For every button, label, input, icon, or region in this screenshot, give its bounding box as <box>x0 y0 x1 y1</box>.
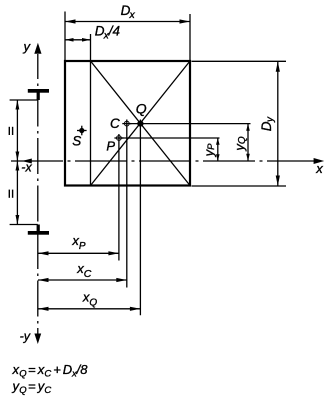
diagonal from top-right to (Dx/4,bottom) <box>91 61 191 186</box>
upper tick extension line <box>10 99 38 101</box>
Dx/4 right arrow <box>82 38 91 42</box>
svg-text:C: C <box>110 116 120 131</box>
Dy bottom extension line <box>192 185 287 187</box>
point S marker <box>77 126 87 136</box>
xQ dimension line <box>38 308 140 310</box>
svg-text:Dx/4: Dx/4 <box>95 23 120 41</box>
equal span arrow down to axis <box>16 152 20 162</box>
y axis centerline <box>37 54 39 334</box>
svg-text:xC: xC <box>76 261 92 280</box>
equal span arrow up at top <box>16 100 20 110</box>
svg-text:x: x <box>315 161 323 176</box>
diagonal from (Dx/4,top) to bottom-right <box>91 61 191 186</box>
xQ left arrow <box>38 307 49 311</box>
lower tick stub <box>37 225 40 235</box>
C vertical extension line <box>126 120 128 288</box>
y axis arrowhead <box>34 43 41 54</box>
Dy top extension line <box>192 60 287 62</box>
svg-text:Dy: Dy <box>259 116 276 131</box>
Dy bottom arrow <box>276 176 280 187</box>
xC left arrow <box>38 278 49 282</box>
Dx right extension line <box>189 14 191 60</box>
negative y arrowhead <box>34 334 41 345</box>
Dx right arrow <box>180 19 191 23</box>
Dx/4 left arrow <box>65 38 74 42</box>
svg-text:S: S <box>72 133 81 148</box>
P vertical extension line <box>118 134 120 261</box>
Dx/4 dimension line <box>65 39 91 41</box>
yQ top arrow <box>246 124 250 131</box>
P level line <box>119 137 220 139</box>
square outline <box>65 61 190 186</box>
yP bottom arrow <box>216 154 220 161</box>
svg-text:xQ=xC+Dx/8: xQ=xC+Dx/8 <box>12 362 89 379</box>
svg-text:yQ: yQ <box>232 136 248 152</box>
x axis centerline <box>11 160 315 162</box>
lower equality mark II <box>9 190 14 198</box>
Dy top arrow <box>276 61 280 72</box>
upper axis tick bar <box>28 89 49 93</box>
point P marker <box>114 136 123 141</box>
yP top arrow <box>216 138 220 145</box>
upper tick stub <box>37 89 40 100</box>
Q vertical extension line <box>139 120 141 316</box>
xC right arrow <box>116 278 127 282</box>
xP dimension line <box>38 252 119 254</box>
xP left arrow <box>38 251 49 255</box>
svg-text:yQ=yC: yQ=yC <box>12 379 52 396</box>
x axis arrowhead <box>314 158 325 164</box>
svg-text:-x: -x <box>21 161 32 175</box>
xP right arrow <box>108 251 119 255</box>
svg-text:y: y <box>23 39 32 54</box>
upper equality mark II <box>9 127 14 135</box>
svg-text:xQ: xQ <box>82 290 98 309</box>
equal spans dimension line <box>16 100 18 225</box>
xQ right arrow <box>130 307 141 311</box>
svg-text:xP: xP <box>71 233 86 252</box>
equal span arrow down at bottom <box>16 215 20 225</box>
lower tick extension line <box>10 224 38 226</box>
svg-text:yP: yP <box>201 143 217 158</box>
yQ dimension line <box>247 124 249 161</box>
Dx left arrow <box>65 19 76 23</box>
svg-text:Q: Q <box>136 100 147 116</box>
svg-text:-y: -y <box>20 330 31 344</box>
Dy dimension line <box>277 61 279 186</box>
xC dimension line <box>38 279 127 281</box>
yP dimension line <box>217 138 219 161</box>
lower axis tick bar <box>28 231 49 235</box>
negative x arrowhead <box>22 159 32 164</box>
Dx dimension line <box>65 21 190 23</box>
point Q dot <box>137 121 143 127</box>
equal span arrow up from axis <box>16 161 20 171</box>
svg-text:P: P <box>106 139 115 154</box>
Dx left extension line <box>64 12 66 61</box>
point C marker <box>122 121 131 126</box>
yQ bottom arrow <box>246 154 250 161</box>
inner line at Dx/4 <box>90 34 92 186</box>
svg-text:Dx: Dx <box>121 3 136 21</box>
centroid level line through C and Q <box>127 123 251 125</box>
